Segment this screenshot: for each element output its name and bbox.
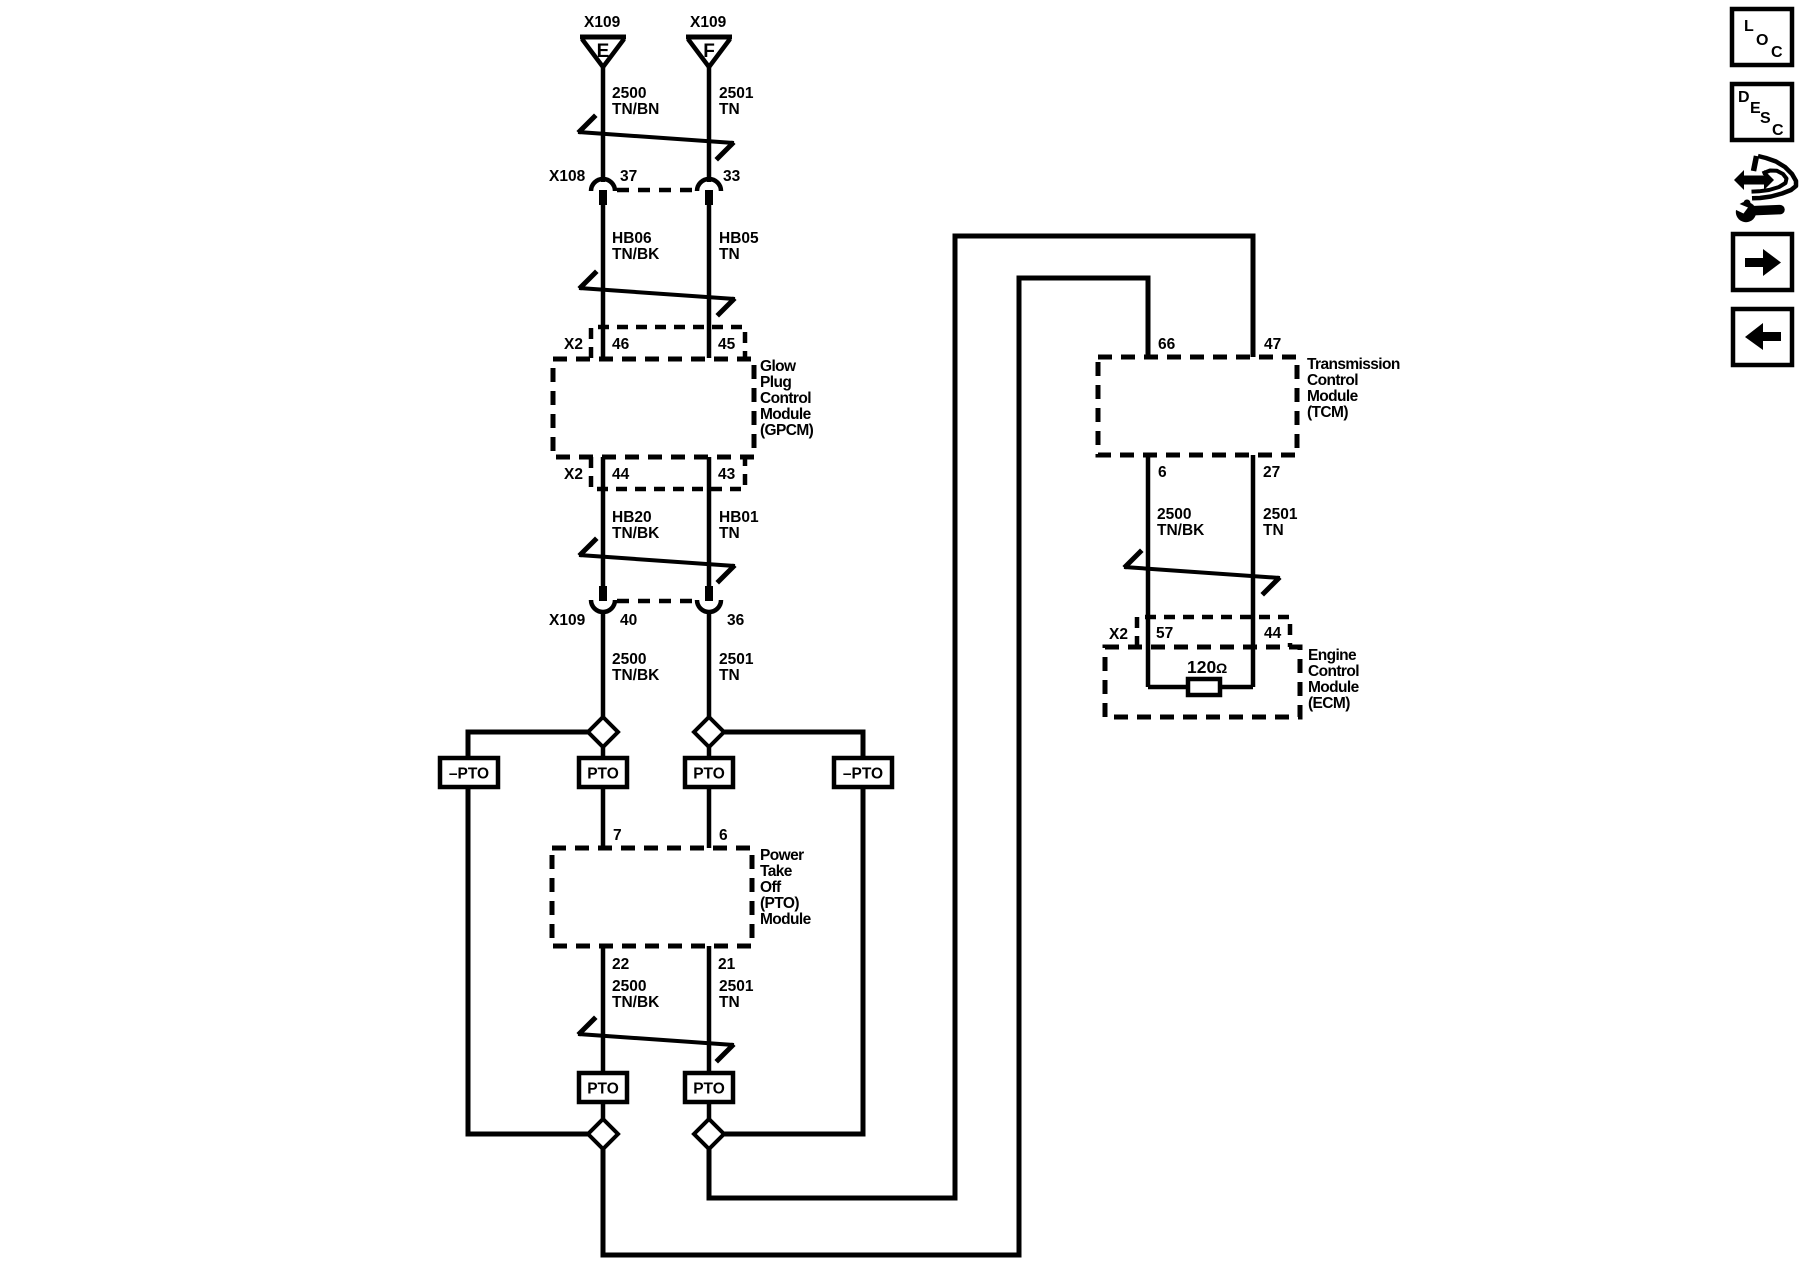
- svg-text:X109: X109: [549, 612, 586, 629]
- svg-text:Control: Control: [760, 390, 811, 407]
- svg-text:2500: 2500: [612, 85, 646, 102]
- svg-text:(GPCM): (GPCM): [760, 422, 814, 439]
- svg-text:PTO: PTO: [693, 766, 725, 783]
- svg-text:Plug: Plug: [760, 374, 791, 391]
- svg-text:TN: TN: [1263, 522, 1284, 539]
- svg-text:HB05: HB05: [719, 230, 759, 247]
- svg-text:Off: Off: [760, 879, 782, 896]
- svg-text:TN: TN: [719, 994, 740, 1011]
- svg-text:47: 47: [1264, 336, 1281, 353]
- svg-text:Control: Control: [1308, 663, 1359, 680]
- svg-text:2501: 2501: [1263, 506, 1298, 523]
- svg-text:(ECM): (ECM): [1308, 695, 1350, 712]
- svg-text:PTO: PTO: [587, 1081, 619, 1098]
- svg-text:21: 21: [718, 956, 736, 973]
- svg-text:45: 45: [718, 336, 736, 353]
- svg-text:6: 6: [719, 827, 728, 844]
- svg-text:X109: X109: [690, 14, 727, 31]
- svg-text:HB06: HB06: [612, 230, 652, 247]
- svg-text:HB20: HB20: [612, 509, 652, 526]
- svg-text:L: L: [1744, 18, 1754, 35]
- svg-text:33: 33: [723, 168, 741, 185]
- svg-text:36: 36: [727, 612, 745, 629]
- svg-text:2500: 2500: [612, 978, 646, 995]
- svg-text:TN/BK: TN/BK: [1157, 522, 1205, 539]
- svg-text:66: 66: [1158, 336, 1176, 353]
- svg-text:Ω: Ω: [1216, 660, 1227, 676]
- svg-text:2500: 2500: [1157, 506, 1191, 523]
- svg-text:TN/BK: TN/BK: [612, 994, 660, 1011]
- svg-text:S: S: [1760, 110, 1771, 127]
- svg-text:2501: 2501: [719, 978, 754, 995]
- svg-text:37: 37: [620, 168, 637, 185]
- svg-text:–PTO: –PTO: [449, 766, 489, 783]
- svg-text:46: 46: [612, 336, 630, 353]
- svg-text:44: 44: [612, 466, 630, 483]
- svg-text:PTO: PTO: [693, 1081, 725, 1098]
- svg-text:X2: X2: [564, 336, 583, 353]
- svg-text:2500: 2500: [612, 651, 646, 668]
- svg-text:(TCM): (TCM): [1307, 404, 1348, 421]
- svg-text:TN/BN: TN/BN: [612, 101, 659, 118]
- svg-text:F: F: [703, 41, 715, 62]
- svg-text:O: O: [1756, 32, 1768, 49]
- svg-text:Module: Module: [760, 406, 812, 423]
- svg-text:Take: Take: [760, 863, 793, 880]
- svg-text:C: C: [1771, 44, 1783, 61]
- svg-text:Glow: Glow: [760, 358, 797, 375]
- svg-text:PTO: PTO: [587, 766, 619, 783]
- svg-text:TN/BK: TN/BK: [612, 246, 660, 263]
- svg-text:X109: X109: [584, 14, 621, 31]
- svg-text:E: E: [597, 41, 610, 62]
- svg-text:57: 57: [1156, 625, 1173, 642]
- svg-text:43: 43: [718, 466, 736, 483]
- svg-text:TN/BK: TN/BK: [612, 667, 660, 684]
- svg-text:40: 40: [620, 612, 637, 629]
- svg-text:Control: Control: [1307, 372, 1358, 389]
- svg-text:7: 7: [613, 827, 622, 844]
- svg-text:TN: TN: [719, 525, 740, 542]
- svg-text:TN/BK: TN/BK: [612, 525, 660, 542]
- svg-text:Module: Module: [760, 911, 812, 928]
- svg-text:Engine: Engine: [1308, 647, 1357, 664]
- svg-text:Module: Module: [1307, 388, 1359, 405]
- svg-text:TN: TN: [719, 246, 740, 263]
- svg-text:Module: Module: [1308, 679, 1360, 696]
- svg-text:6: 6: [1158, 464, 1167, 481]
- svg-text:X2: X2: [564, 466, 583, 483]
- svg-text:(PTO): (PTO): [760, 895, 799, 912]
- svg-text:22: 22: [612, 956, 629, 973]
- svg-text:D: D: [1738, 89, 1750, 106]
- svg-text:X108: X108: [549, 168, 586, 185]
- svg-text:–PTO: –PTO: [843, 766, 883, 783]
- svg-text:HB01: HB01: [719, 509, 759, 526]
- svg-text:X2: X2: [1109, 626, 1128, 643]
- svg-text:27: 27: [1263, 464, 1280, 481]
- svg-text:44: 44: [1264, 625, 1282, 642]
- svg-text:C: C: [1772, 122, 1784, 139]
- svg-text:2501: 2501: [719, 85, 754, 102]
- svg-text:TN: TN: [719, 101, 740, 118]
- svg-text:Transmission: Transmission: [1307, 356, 1400, 373]
- svg-text:2501: 2501: [719, 651, 754, 668]
- svg-text:120: 120: [1187, 657, 1216, 677]
- svg-text:Power: Power: [760, 847, 804, 864]
- svg-text:TN: TN: [719, 667, 740, 684]
